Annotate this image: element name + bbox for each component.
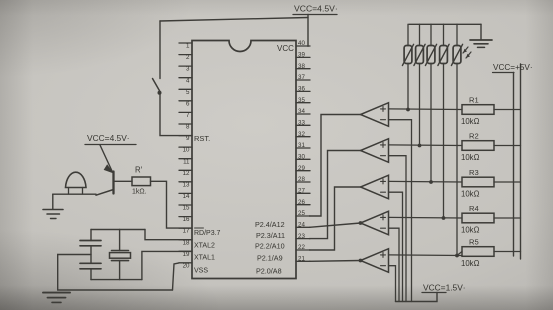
capacitor C1 lead xyxy=(90,230,92,241)
svg-text:RD/P3.7: RD/P3.7 xyxy=(194,230,221,237)
wire VSS pin20 down xyxy=(173,263,180,290)
wire U3 output to P2.3 xyxy=(310,151,361,239)
ground main xyxy=(43,293,70,303)
svg-text:35: 35 xyxy=(298,97,305,104)
svg-text:R2: R2 xyxy=(469,131,479,140)
svg-text:XTAL2: XTAL2 xyxy=(194,243,215,250)
wire C2 to bottom node xyxy=(90,269,92,280)
capacitor C2 plates xyxy=(80,263,101,269)
wire R4 to +5V rail xyxy=(494,217,521,219)
sensor RV2 adjustable resistor xyxy=(414,24,425,145)
svg-text:6: 6 xyxy=(186,100,190,107)
ground buzzer xyxy=(43,210,63,219)
node dot sensor 4 junction xyxy=(442,216,446,220)
op-amp U4 minus mark xyxy=(381,191,386,193)
power label VCC=4.5V top xyxy=(293,4,338,15)
power rail +5V second stroke xyxy=(520,64,522,259)
ground sensor rail xyxy=(470,40,492,47)
resistor R3 body xyxy=(462,177,494,187)
power label VCC=+5V xyxy=(493,63,533,73)
MCU right pin stubs 40-21 xyxy=(296,40,310,262)
svg-text:VSS: VSS xyxy=(194,268,208,275)
sensor RV1 adjustable resistor xyxy=(402,24,413,109)
svg-text:26: 26 xyxy=(298,199,305,206)
svg-text:4: 4 xyxy=(186,77,190,84)
crystal Y1 top lead xyxy=(119,230,121,251)
svg-text:36: 36 xyxy=(298,86,305,93)
resistor R' body xyxy=(132,177,151,186)
transistor Q1 collector xyxy=(96,190,114,196)
op-amp U5 plus mark xyxy=(381,215,386,220)
svg-text:P2.4/A12: P2.4/A12 xyxy=(255,220,285,229)
wire U6 output to P2.0 xyxy=(310,260,361,263)
svg-text:34: 34 xyxy=(298,108,305,115)
svg-text:XTAL1: XTAL1 xyxy=(194,255,215,262)
svg-text:15: 15 xyxy=(183,205,190,212)
svg-text:1: 1 xyxy=(186,43,190,50)
wire tap down to ground xyxy=(57,255,59,291)
wire corner to XTAL2 pin18 xyxy=(145,230,192,240)
op-amp U4 plus mark xyxy=(381,179,386,184)
svg-text:R′: R′ xyxy=(135,166,143,175)
wire R3 to +5V rail xyxy=(494,181,521,183)
wire U4 - input to 1.5V ref xyxy=(389,192,403,301)
op-amp comparator U6 triangle xyxy=(361,249,389,273)
wire left vertical to switch xyxy=(159,21,161,79)
svg-text:40: 40 xyxy=(298,40,305,47)
power label VCC=1.5V xyxy=(422,283,466,293)
MCU pin label RD/P3.7 pin17 xyxy=(194,228,221,237)
wire U4 output to P2.2 xyxy=(310,187,361,250)
wire U2 - input to 1.5V ref xyxy=(389,120,412,302)
wire buzzer bottom xyxy=(53,193,96,195)
svg-text:R1: R1 xyxy=(469,95,479,104)
crystal Y1 plates and body xyxy=(110,251,131,261)
wire U2 output to P2.4 xyxy=(310,115,361,217)
svg-text:P2.1/A9: P2.1/A9 xyxy=(257,254,283,263)
svg-text:3: 3 xyxy=(186,66,190,73)
svg-text:VCC=+5V·: VCC=+5V· xyxy=(493,63,533,72)
MCU left pin stubs 1-20 xyxy=(179,43,192,270)
svg-text:23: 23 xyxy=(298,233,305,240)
svg-text:VCC=1.5V·: VCC=1.5V· xyxy=(423,283,466,293)
op-amp U5 minus mark xyxy=(381,227,386,229)
wire R2 to +5V rail xyxy=(494,145,521,147)
op-amp U6 plus mark xyxy=(381,252,386,257)
svg-text:16: 16 xyxy=(183,216,190,223)
op-amp comparator U5 triangle xyxy=(361,211,389,235)
svg-text:38: 38 xyxy=(298,63,305,70)
svg-text:20: 20 xyxy=(183,262,190,269)
wire R5 to +5V rail xyxy=(494,251,521,253)
svg-text:VCC: VCC xyxy=(277,44,294,53)
resistor R2 body xyxy=(462,141,494,151)
svg-text:VCC=4.5V·: VCC=4.5V· xyxy=(294,4,338,14)
op-amp comparator U2 triangle xyxy=(361,103,389,127)
svg-text:21: 21 xyxy=(298,256,305,263)
svg-text:R4: R4 xyxy=(469,204,479,213)
svg-text:10kΩ: 10kΩ xyxy=(461,190,480,199)
op-amp U6 minus mark xyxy=(381,265,386,267)
sensor RV5 adjustable resistor xyxy=(451,24,462,255)
svg-text:P2.2/A10: P2.2/A10 xyxy=(255,242,285,251)
svg-text:10kΩ: 10kΩ xyxy=(461,259,480,268)
wire rail to ground xyxy=(480,24,482,39)
capacitor C1 plates xyxy=(80,241,101,246)
wire VCC to Q1 emitter xyxy=(100,145,112,171)
node dot sensor 3 junction xyxy=(429,180,433,184)
svg-text:VCC=4.5V·: VCC=4.5V· xyxy=(87,133,130,143)
svg-text:39: 39 xyxy=(298,52,305,59)
resistor R5 body xyxy=(462,247,494,257)
node dot sensor 5 junction xyxy=(455,254,459,258)
svg-text:P2.0/A8: P2.0/A8 xyxy=(256,267,282,276)
wire U5 + input to node xyxy=(389,216,463,219)
MCU U1 AT89C51 body with pin-1 notch xyxy=(192,41,296,279)
svg-text:37: 37 xyxy=(298,74,305,81)
sensor RV4 adjustable resistor xyxy=(438,24,449,218)
power label VCC=4.5V buzzer xyxy=(85,133,136,145)
wire R' to P3.7 pin17 xyxy=(151,181,193,228)
svg-text:27: 27 xyxy=(298,188,305,195)
svg-text:12: 12 xyxy=(183,170,190,177)
svg-text:8: 8 xyxy=(186,124,190,131)
buzzer LS1 dome xyxy=(66,172,87,187)
svg-text:5: 5 xyxy=(186,89,190,96)
wire U6 + input to node xyxy=(389,254,463,257)
node dot sensor 1 junction xyxy=(406,108,410,112)
wire caps midpoint tap xyxy=(58,254,91,256)
wire U5 output to P2.1 xyxy=(310,223,361,227)
wire U5 - input to 1.5V ref xyxy=(389,228,400,301)
op-amp U2 minus mark xyxy=(381,119,386,121)
sensor light arrows xyxy=(463,47,471,58)
wire sensor common top rail xyxy=(409,23,481,25)
svg-text:R5: R5 xyxy=(469,237,479,246)
switch S1 reset lever xyxy=(153,79,161,93)
crystal Y1 bottom lead xyxy=(119,261,121,280)
buzzer LS1 legs xyxy=(69,188,83,195)
op-amp U3 plus mark xyxy=(381,142,386,147)
svg-text:32: 32 xyxy=(298,131,305,138)
svg-text:28: 28 xyxy=(298,176,305,183)
switch S1 contact dot xyxy=(158,91,162,95)
svg-text:29: 29 xyxy=(298,165,305,172)
wire U2 + input to node xyxy=(389,108,463,111)
wire top rail to RST switch xyxy=(160,18,308,22)
svg-text:10: 10 xyxy=(183,147,190,154)
svg-text:10kΩ: 10kΩ xyxy=(461,117,480,126)
power rail +5V vertical xyxy=(513,73,515,257)
svg-text:1kΩ.: 1kΩ. xyxy=(132,189,147,196)
svg-text:31: 31 xyxy=(298,142,305,149)
wire R1 to +5V rail xyxy=(494,109,521,111)
wire XTAL2 top node xyxy=(91,229,145,231)
wire U4 + input to node xyxy=(389,180,463,183)
svg-text:14: 14 xyxy=(183,193,190,200)
resistor R4 body xyxy=(462,213,494,223)
op-amp comparator U4 triangle xyxy=(361,175,389,199)
wire buzzer to ground xyxy=(52,194,54,209)
wire U6 - input to 1.5V ref xyxy=(389,266,396,302)
sensor RV3 adjustable resistor xyxy=(425,24,436,182)
svg-text:24: 24 xyxy=(298,222,305,229)
svg-text:2: 2 xyxy=(186,54,190,61)
svg-text:RST.: RST. xyxy=(194,134,210,143)
wire corner to XTAL1 pin19 xyxy=(142,251,192,279)
wire XTAL1 bottom node xyxy=(91,279,142,281)
op-amp U2 plus mark xyxy=(381,106,386,111)
wire 1.5V reference rail xyxy=(396,293,438,302)
svg-text:11: 11 xyxy=(183,158,190,165)
svg-text:7: 7 xyxy=(186,112,190,119)
wire ground rail bottom xyxy=(58,289,173,291)
svg-text:10kΩ: 10kΩ xyxy=(461,153,480,162)
transistor Q1 PNP emitter arrow xyxy=(104,165,112,172)
node dot sensor 2 junction xyxy=(418,144,422,148)
svg-text:R3: R3 xyxy=(469,168,479,177)
svg-text:33: 33 xyxy=(298,120,305,127)
op-amp comparator U3 triangle xyxy=(361,139,389,163)
wire C1 to C2 xyxy=(90,246,92,263)
svg-text:10kΩ: 10kΩ xyxy=(461,226,480,235)
wire U3 + input to node xyxy=(389,144,463,147)
wire U3 - input to 1.5V ref xyxy=(389,156,407,302)
svg-text:22: 22 xyxy=(298,244,305,251)
transistor Q1 base bar xyxy=(112,172,114,194)
op-amp U3 minus mark xyxy=(381,155,386,157)
svg-text:13: 13 xyxy=(183,181,190,188)
svg-text:30: 30 xyxy=(298,154,305,161)
svg-text:25: 25 xyxy=(298,210,305,217)
resistor R1 body xyxy=(462,105,494,115)
wire Q1 base to R' xyxy=(114,180,133,182)
wire switch to RST pin9 xyxy=(160,95,192,136)
svg-text:P2.3/A11: P2.3/A11 xyxy=(256,231,285,240)
wire VCC vertical to pin40 xyxy=(307,15,309,47)
